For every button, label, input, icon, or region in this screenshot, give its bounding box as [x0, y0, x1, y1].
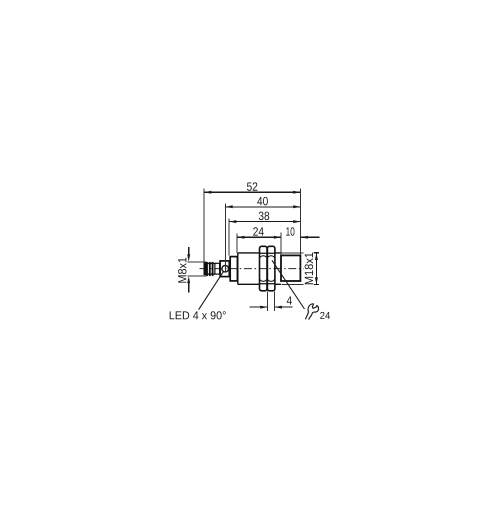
dim 10 text: [286, 227, 294, 235]
40 dim extension: [224, 204, 226, 272]
head block: [281, 255, 300, 281]
collar: [230, 257, 237, 281]
M8 connector tip cap: [204, 263, 206, 275]
M18 dim line with ticks and arrows: [314, 253, 319, 285]
M18 dim extensions: [281, 253, 319, 285]
4 dim extensions: [268, 291, 275, 310]
label M18x1: [305, 253, 313, 285]
barrel thread M18 right stub: [275, 253, 281, 284]
label LED 4 x 90deg: [170, 311, 226, 319]
centerline: [200, 268, 309, 270]
24 dim extension left: [236, 233, 238, 253]
dim 4 outside arrows: [250, 306, 293, 308]
LED block: [220, 261, 229, 277]
10 dim extension: [280, 232, 282, 255]
wrench leader: [272, 260, 305, 309]
dim 52: [204, 191, 301, 193]
M8 thread root lines: [206, 263, 215, 274]
dim 40 text: [257, 197, 268, 205]
dim 38 text: [259, 212, 269, 220]
52/40/38 dim extension right: [300, 188, 302, 255]
M18x1 text knockout: [304, 252, 314, 286]
barrel left step edge: [237, 253, 239, 284]
barrel thread M18 left part: [238, 253, 260, 284]
dim 52 text: [247, 182, 257, 190]
connector neck: [215, 263, 220, 274]
dim 4 text: [287, 296, 292, 304]
wrench icon: [305, 304, 318, 320]
dim 38: [229, 221, 300, 223]
M8 dim line arrows: [188, 247, 190, 293]
38 dim extension: [228, 219, 230, 256]
label M8x1: [178, 258, 186, 283]
dim 10 outside arrow right: [301, 236, 320, 238]
LED leader: [199, 271, 224, 309]
M8 thread crests: [206, 262, 208, 276]
LED circle: [222, 265, 229, 272]
52 dim extension left: [203, 188, 205, 262]
dim 40: [225, 206, 300, 208]
hex nut 2: [267, 246, 275, 290]
dim 24 text: [253, 227, 263, 235]
M8 dim extensions: [188, 262, 207, 276]
hex nut 1: [260, 246, 268, 290]
dim 24: [237, 236, 281, 238]
wrench size 24 text: [320, 312, 330, 319]
